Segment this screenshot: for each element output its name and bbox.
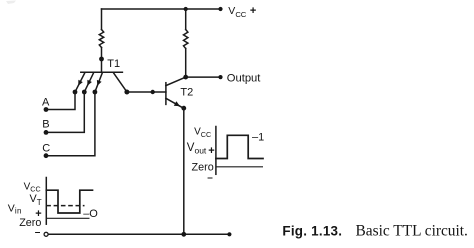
ground open-circle terminal bbox=[44, 232, 48, 236]
resistor R1 (T1 base pull-up) bbox=[99, 30, 103, 48]
svg-text:+: + bbox=[208, 145, 214, 157]
node Output terminal bbox=[218, 75, 222, 79]
wire Vcc rail to R1 bbox=[101, 9, 103, 30]
wire input B to emitter 2 bbox=[46, 92, 84, 132]
node T1 emitter 3 bbox=[93, 90, 98, 95]
wire input C to emitter 3 bbox=[46, 92, 95, 156]
svg-text:–O: –O bbox=[83, 208, 98, 220]
svg-text:Output: Output bbox=[227, 72, 261, 84]
wire R1 to T1 base bbox=[101, 48, 103, 73]
node input C terminal bbox=[44, 153, 49, 158]
svg-text:–: – bbox=[207, 172, 213, 183]
node Vcc+ terminal bbox=[218, 7, 222, 11]
svg-text:Vout: Vout bbox=[187, 142, 207, 156]
node input B terminal bbox=[44, 130, 49, 135]
junction T1 base node bbox=[99, 57, 104, 62]
svg-text:VCC: VCC bbox=[24, 181, 41, 193]
svg-text:A: A bbox=[42, 96, 50, 108]
wire output bbox=[186, 76, 221, 78]
node ground rail end bbox=[227, 232, 231, 236]
input waveform trace bbox=[46, 190, 92, 213]
threshold VT dashed line bbox=[46, 205, 84, 207]
resistor R2 (output pull-up) bbox=[184, 30, 188, 49]
transistor T2 (npn) bbox=[166, 77, 186, 108]
svg-text:T2: T2 bbox=[180, 87, 193, 99]
output zero level line bbox=[216, 166, 263, 168]
svg-text:B: B bbox=[42, 118, 49, 130]
svg-text:Zero: Zero bbox=[19, 217, 41, 229]
junction R2 top on Vcc rail bbox=[184, 7, 188, 11]
svg-text:VT: VT bbox=[30, 193, 42, 207]
output waveform axis bbox=[215, 127, 217, 175]
input waveform axis bbox=[45, 178, 47, 225]
svg-text:VCC+: VCC+ bbox=[228, 5, 256, 19]
svg-text:VCC: VCC bbox=[194, 127, 211, 139]
wire T2 emitter to ground rail bbox=[183, 108, 185, 234]
svg-text:Vin: Vin bbox=[8, 203, 22, 216]
node T2 emitter bbox=[181, 106, 186, 111]
wire ground return rail bbox=[48, 233, 229, 235]
node T2 collector junction bbox=[183, 75, 188, 80]
node input A terminal bbox=[44, 107, 49, 112]
wire Vcc rail to R2 bbox=[185, 9, 187, 30]
output waveform trace bbox=[216, 135, 263, 158]
svg-text:Basic TTL circuit.: Basic TTL circuit. bbox=[356, 222, 468, 239]
svg-text:Fig. 1.13.: Fig. 1.13. bbox=[282, 223, 342, 238]
node T1 emitter 2 bbox=[82, 90, 87, 95]
junction emitter wire on ground rail bbox=[181, 232, 186, 237]
svg-text:–1: –1 bbox=[252, 132, 264, 144]
wire Vcc supply rail bbox=[102, 8, 221, 10]
svg-text:T1: T1 bbox=[107, 58, 120, 70]
node T1 collector bbox=[124, 90, 129, 95]
wire R2 to output node bbox=[185, 49, 187, 78]
wire input A to emitter 1 bbox=[46, 92, 75, 110]
node T1 emitter 1 bbox=[73, 90, 78, 95]
svg-text:C: C bbox=[42, 143, 50, 155]
junction on T2 base wire bbox=[151, 90, 155, 94]
wire T1 collector to T2 base bbox=[127, 91, 166, 93]
transistor T1 (multi-emitter npn) bbox=[75, 72, 127, 92]
input zero level line bbox=[46, 217, 89, 219]
